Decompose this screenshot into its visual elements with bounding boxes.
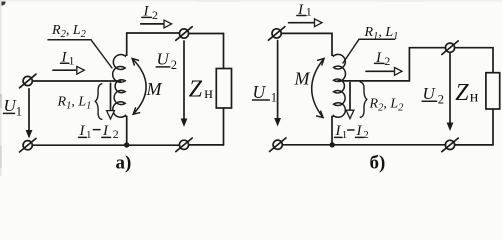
svg-text:Z: Z [455,80,469,106]
svg-text:н: н [470,88,479,105]
svg-text:I: I [375,50,382,66]
svg-text:M: M [146,79,163,99]
svg-text:I: I [297,2,304,18]
svg-text:I: I [335,123,342,139]
svg-text:1: 1 [69,55,75,67]
svg-text:н: н [204,85,213,102]
svg-text:2: 2 [113,127,119,141]
svg-text:U: U [253,82,267,102]
svg-text:I: I [143,4,150,20]
svg-text:U: U [157,50,171,69]
svg-text:б): б) [370,153,386,174]
svg-text:1: 1 [271,90,277,104]
svg-text:Z: Z [189,76,203,102]
svg-text:I: I [102,123,109,139]
svg-text:I: I [356,123,363,139]
svg-text:1: 1 [342,129,348,141]
svg-text:M: M [294,69,311,89]
svg-text:1: 1 [16,104,22,118]
svg-text:U: U [423,84,437,103]
svg-text:2: 2 [363,129,369,141]
svg-text:2: 2 [384,54,390,68]
svg-text:2: 2 [152,8,158,22]
svg-text:а): а) [116,153,132,174]
svg-text:I: I [61,49,68,65]
svg-text:I: I [79,123,86,139]
svg-text:1: 1 [86,129,92,141]
svg-text:1: 1 [306,5,312,19]
svg-text:2: 2 [438,92,444,106]
svg-text:2: 2 [171,58,177,72]
